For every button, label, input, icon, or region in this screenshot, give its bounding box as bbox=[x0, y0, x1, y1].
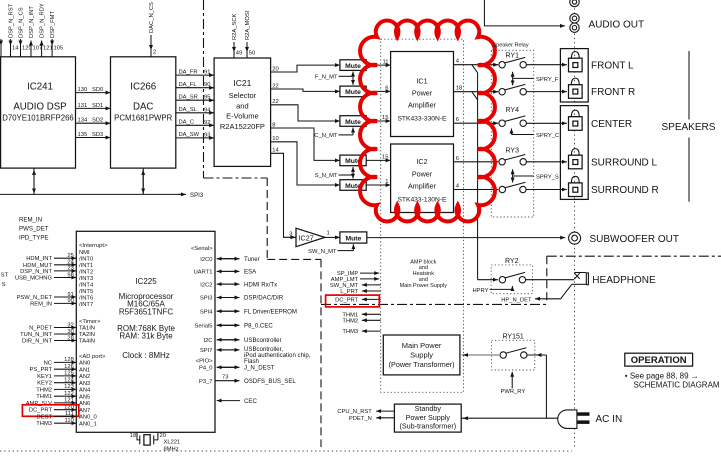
section boundary dashed vertical x547 bbox=[546, 256, 548, 304]
svg-text:14: 14 bbox=[12, 46, 19, 52]
svg-text:SPRY_S: SPRY_S bbox=[536, 175, 559, 181]
wire DSP_N_RDY pin 121 bbox=[40, 3, 53, 57]
red highlight box DC_PRT right bbox=[326, 295, 380, 307]
mute block SW bbox=[340, 232, 367, 243]
mute block C bbox=[340, 116, 366, 127]
svg-text:SPRY_F: SPRY_F bbox=[536, 77, 559, 83]
terminal CENTER bbox=[569, 110, 633, 130]
svg-text:R5F3651TNFC: R5F3651TNFC bbox=[119, 307, 173, 316]
node L_PRT bbox=[340, 289, 380, 295]
svg-text:DA_SL: DA_SL bbox=[179, 107, 198, 113]
svg-text:SURROUND L: SURROUND L bbox=[591, 157, 658, 168]
svg-text:IC21: IC21 bbox=[233, 78, 251, 88]
node S_N_MT mute control bbox=[315, 167, 353, 179]
wire SPI3 to DSP/DAC/DIR bbox=[217, 295, 284, 302]
node THM2 bbox=[342, 318, 380, 324]
node PS_PRT pin 126 bbox=[30, 364, 77, 373]
svg-text:NC: NC bbox=[44, 360, 52, 366]
svg-text:14: 14 bbox=[272, 148, 279, 154]
svg-text:Amplifier: Amplifier bbox=[408, 101, 437, 110]
node DC_PRT bbox=[335, 298, 381, 304]
wire DA_SL pin 94 bbox=[176, 107, 214, 113]
svg-text:AN1: AN1 bbox=[79, 367, 90, 373]
power amplifier IC1 bbox=[391, 52, 454, 137]
svg-text:3: 3 bbox=[289, 231, 292, 237]
svg-text:AN6: AN6 bbox=[79, 401, 90, 407]
svg-text:ST: ST bbox=[1, 273, 9, 279]
svg-text:TA2IN: TA2IN bbox=[79, 332, 95, 338]
svg-text:PWS_DET: PWS_DET bbox=[19, 226, 49, 233]
svg-text:134: 134 bbox=[78, 118, 88, 124]
svg-text:• See page 88, 89 →: • See page 88, 89 → bbox=[625, 371, 699, 380]
svg-text:/INT6: /INT6 bbox=[79, 295, 93, 301]
svg-text:SPRY_C: SPRY_C bbox=[536, 133, 559, 139]
svg-text:SD0: SD0 bbox=[92, 87, 103, 93]
section boundary dashed vertical x267 bbox=[266, 178, 268, 259]
dotted box AMP block / Heatsink / Main Power Supply bbox=[381, 39, 464, 392]
wire SPI4 to FL Driver/EEPROM bbox=[217, 308, 297, 315]
IC266 DAC box bbox=[111, 57, 176, 168]
wire P3_7 pin 73 to OSDFS_BUS_SEL bbox=[215, 375, 296, 385]
svg-text:SCHEMATIC DIAGRAM: SCHEMATIC DIAGRAM bbox=[634, 381, 720, 390]
svg-text:AN7: AN7 bbox=[79, 408, 90, 414]
svg-text:OSDFS_BUS_SEL: OSDFS_BUS_SEL bbox=[244, 378, 296, 385]
svg-text:E-Volume: E-Volume bbox=[226, 112, 259, 121]
wire SD3 pin 135 bbox=[76, 132, 111, 138]
pin group Interrupt labels bbox=[79, 243, 108, 427]
relay RY2 headphone bbox=[491, 258, 532, 293]
relay RY4 contact center bbox=[499, 116, 527, 127]
svg-text:UART1: UART1 bbox=[194, 270, 213, 276]
svg-text:N_PDET: N_PDET bbox=[29, 326, 52, 332]
svg-text:I2C2: I2C2 bbox=[200, 282, 212, 288]
svg-text:PWR_RY: PWR_RY bbox=[501, 389, 526, 395]
svg-text:STK433-330N-E: STK433-330N-E bbox=[397, 116, 447, 123]
wire RY1 to FRONT L terminal bbox=[526, 64, 566, 66]
svg-text:Power Supply: Power Supply bbox=[406, 413, 451, 422]
svg-text:(Sub-transformer): (Sub-transformer) bbox=[399, 422, 456, 431]
svg-text:SW_N_MT: SW_N_MT bbox=[330, 283, 359, 289]
svg-text:RY3: RY3 bbox=[506, 147, 520, 154]
svg-text:50: 50 bbox=[249, 51, 255, 57]
svg-text:121: 121 bbox=[43, 46, 53, 52]
svg-text:IC1: IC1 bbox=[416, 76, 427, 85]
svg-text:131: 131 bbox=[78, 103, 88, 109]
section boundary dash-dot horizontal y178 bbox=[204, 177, 268, 179]
svg-text:/INT4: /INT4 bbox=[79, 282, 94, 288]
svg-text:TA4IN: TA4IN bbox=[79, 339, 95, 345]
wire IC21 pin 8 to Mute S L bbox=[271, 122, 340, 160]
dotted page border bottom bbox=[0, 450, 572, 452]
wire Serial5 to P8_0,CEC bbox=[217, 323, 274, 330]
wire I2C to USBcontroller bbox=[217, 337, 282, 344]
svg-text:C_N_MT: C_N_MT bbox=[314, 133, 338, 139]
svg-text:AN4: AN4 bbox=[79, 388, 91, 394]
svg-text:Mute: Mute bbox=[345, 119, 361, 126]
wire IC21 pin 10 to Mute S R bbox=[271, 136, 340, 185]
svg-text:R2A_MOSI: R2A_MOSI bbox=[245, 10, 251, 40]
node HDM_INT pin 25 bbox=[26, 253, 76, 262]
svg-text:Standby: Standby bbox=[415, 404, 442, 413]
svg-text:2: 2 bbox=[153, 50, 156, 56]
op-amp IC27 bbox=[289, 228, 340, 247]
wire headphone feed to RY2 bbox=[478, 279, 498, 281]
svg-text:DC_PRT: DC_PRT bbox=[335, 298, 359, 304]
wire headphone feed vertical bbox=[477, 73, 479, 280]
svg-text:RY2: RY2 bbox=[505, 258, 519, 265]
svg-text:PS_PRT: PS_PRT bbox=[30, 367, 53, 373]
svg-text:THM2: THM2 bbox=[36, 387, 52, 393]
node SPRY_F relay control bbox=[513, 72, 559, 86]
svg-text:DSP/DAC/DIR: DSP/DAC/DIR bbox=[244, 295, 284, 302]
wire RY1 to FRONT R terminal bbox=[526, 91, 566, 93]
terminal FRONT L bbox=[569, 52, 635, 72]
mute block S R bbox=[340, 180, 366, 191]
svg-text:/INT2: /INT2 bbox=[79, 269, 93, 275]
svg-text:22: 22 bbox=[272, 83, 278, 89]
dotted box Speaker Relay bbox=[491, 50, 533, 217]
node THM3 pin 110 bbox=[36, 418, 76, 427]
svg-text:P3_7: P3_7 bbox=[199, 379, 213, 385]
IC241 AUDIO DSP box bbox=[1, 57, 76, 168]
node KEY2 pin 124 bbox=[37, 378, 76, 387]
svg-text:PCM1681PWPR: PCM1681PWPR bbox=[114, 114, 172, 123]
svg-text:D70YE101BRFP266: D70YE101BRFP266 bbox=[2, 114, 74, 123]
svg-text:TUN_N_INT: TUN_N_INT bbox=[20, 332, 52, 338]
svg-text:SW_N_MT: SW_N_MT bbox=[308, 249, 337, 255]
svg-text:and: and bbox=[419, 265, 428, 271]
red highlight box DC_PRT left bbox=[22, 405, 78, 417]
svg-text:XL221: XL221 bbox=[164, 439, 181, 445]
svg-text:91: 91 bbox=[204, 70, 210, 76]
svg-text:DSP_N_RST: DSP_N_RST bbox=[8, 3, 14, 38]
svg-text:and: and bbox=[236, 101, 249, 110]
svg-text:8: 8 bbox=[272, 122, 275, 128]
node THM3 bbox=[342, 329, 380, 335]
node SPEAKERS bracket bbox=[662, 51, 716, 202]
node HPRY relay control bbox=[472, 286, 512, 294]
svg-text:RY1: RY1 bbox=[506, 53, 520, 60]
wire mute to IC1 pin 6 bbox=[366, 86, 390, 92]
svg-text:DIR_N_INT: DIR_N_INT bbox=[22, 339, 52, 345]
svg-text:6: 6 bbox=[385, 86, 388, 92]
wire tap front L to headphone feed bbox=[472, 65, 478, 73]
svg-text:SD3: SD3 bbox=[92, 132, 103, 138]
svg-text:CEC: CEC bbox=[244, 398, 257, 405]
svg-text:Power: Power bbox=[412, 169, 433, 178]
node PSW_N_DET pin 91 bbox=[17, 292, 77, 301]
wire RY3 to SURROUND R terminal bbox=[526, 189, 567, 191]
wire CEC input bbox=[217, 398, 258, 405]
svg-text:105: 105 bbox=[54, 46, 64, 52]
svg-text:6: 6 bbox=[456, 156, 459, 162]
connector RCA top bbox=[570, 0, 579, 7]
wire DSP_N_CS pin 120 bbox=[18, 7, 31, 57]
svg-text:I2C: I2C bbox=[203, 338, 212, 344]
svg-text:<Interrupt>: <Interrupt> bbox=[79, 243, 108, 249]
svg-text:AN0: AN0 bbox=[79, 361, 90, 367]
svg-text:OPERATION: OPERATION bbox=[631, 355, 687, 366]
node THM1 bbox=[342, 312, 380, 318]
section boundary dash-dot vertical left of IC21 bbox=[203, 0, 205, 178]
relay RY3 contact surround L bbox=[499, 155, 527, 166]
wire R2A_SCK pin 49 bbox=[232, 13, 242, 58]
wire RY3 to SURROUND L terminal bbox=[526, 161, 566, 163]
wire SD1 pin 131 bbox=[76, 103, 111, 109]
wire IC241 to SPI3 bus (bidirectional) bbox=[33, 168, 35, 194]
svg-text:20: 20 bbox=[160, 433, 166, 439]
svg-text:18: 18 bbox=[456, 86, 462, 92]
svg-text:F_N_MT: F_N_MT bbox=[315, 75, 338, 81]
speaker terminal group box front bbox=[560, 49, 588, 102]
wire P4_0 to J_N_DEST bbox=[217, 365, 275, 372]
svg-text:S_N_MT: S_N_MT bbox=[315, 173, 338, 179]
wire AC IN to standby supply bbox=[461, 417, 560, 419]
wire IC21 pin 14 to IC27 bbox=[271, 148, 296, 238]
svg-text:AUDIO OUT: AUDIO OUT bbox=[589, 20, 645, 31]
mute block F L bbox=[340, 60, 366, 71]
svg-text:HDM_INT: HDM_INT bbox=[26, 256, 52, 262]
svg-text:SPI3: SPI3 bbox=[190, 192, 204, 199]
svg-text:IC266: IC266 bbox=[130, 82, 156, 93]
pin group Serial labels right bbox=[191, 246, 213, 385]
svg-text:DAC: DAC bbox=[133, 102, 153, 113]
node AMP_SLV pin 121 bbox=[26, 398, 77, 407]
wire DA_SR pin 95 bbox=[176, 94, 214, 100]
svg-text:THM1: THM1 bbox=[36, 394, 52, 400]
svg-text:KEY1: KEY1 bbox=[37, 374, 52, 380]
svg-text:AN0_1: AN0_1 bbox=[79, 421, 97, 427]
svg-text:RAM: 31k Byte: RAM: 31k Byte bbox=[119, 332, 173, 341]
floating node labels REM_IN PWS_DET IPD_TYPE bbox=[19, 217, 49, 242]
svg-text:DSP_N_INT: DSP_N_INT bbox=[20, 269, 52, 275]
connector RCA audio out upper bbox=[570, 14, 579, 23]
svg-text:8MHz: 8MHz bbox=[164, 446, 179, 452]
speaker terminal group box center surround bbox=[560, 106, 588, 200]
svg-text:CENTER: CENTER bbox=[591, 119, 632, 130]
dotted connector centerline x574.5 bbox=[574, 0, 576, 448]
svg-text:IC225: IC225 bbox=[135, 277, 157, 286]
svg-text:DSP_N_RDY: DSP_N_RDY bbox=[40, 3, 46, 38]
svg-text:92: 92 bbox=[204, 120, 210, 126]
red highlight cloud around amp block bbox=[360, 21, 495, 222]
svg-text:DEST: DEST bbox=[37, 414, 53, 420]
svg-text:RY4: RY4 bbox=[506, 107, 520, 114]
svg-text:DA_FR: DA_FR bbox=[179, 69, 198, 75]
node SW_N_MT mute control bbox=[308, 244, 353, 255]
IC21 Selector and E-Volume box bbox=[214, 58, 271, 166]
svg-text:DA_SR: DA_SR bbox=[179, 94, 198, 100]
svg-text:120: 120 bbox=[22, 46, 32, 52]
svg-text:DA_SW: DA_SW bbox=[179, 132, 200, 138]
svg-text:Main Power: Main Power bbox=[402, 341, 442, 350]
svg-text:95: 95 bbox=[204, 95, 210, 101]
svg-text:SURROUND R: SURROUND R bbox=[591, 185, 659, 196]
node HDM_MUT pin 24 bbox=[23, 260, 76, 269]
node DEST pin 111 bbox=[37, 411, 77, 420]
svg-text:HPRY: HPRY bbox=[472, 288, 488, 294]
node SW_N_MT bbox=[330, 283, 381, 289]
section boundary dash-dot horizontal y256 right bbox=[547, 255, 721, 257]
node THM1 pin 122 bbox=[36, 391, 76, 400]
svg-text:SPI7: SPI7 bbox=[200, 348, 213, 354]
node SPRY_C relay control bbox=[512, 129, 560, 139]
svg-text:AN5: AN5 bbox=[79, 394, 90, 400]
node AMP_LMT bbox=[331, 277, 379, 283]
svg-text:ESA: ESA bbox=[244, 269, 257, 276]
svg-text:SUBWOOFER OUT: SUBWOOFER OUT bbox=[590, 234, 679, 245]
svg-text:TA1IN: TA1IN bbox=[79, 326, 95, 332]
svg-text:Mute: Mute bbox=[345, 63, 361, 70]
node PWR_RY relay control bbox=[501, 372, 526, 395]
svg-text:1: 1 bbox=[385, 179, 388, 185]
svg-text:DA_C: DA_C bbox=[179, 120, 194, 126]
svg-text:Selector: Selector bbox=[229, 91, 257, 100]
svg-text:DC_PRT: DC_PRT bbox=[29, 408, 53, 414]
svg-text:/INT7: /INT7 bbox=[79, 302, 93, 308]
node TUN_N_INT pin 30 bbox=[20, 329, 76, 338]
node CPU_N_RST bbox=[337, 409, 394, 415]
svg-text:<Serial>: <Serial> bbox=[191, 246, 213, 252]
svg-text:SD2: SD2 bbox=[92, 118, 103, 124]
svg-text:FL Driver/EEPROM: FL Driver/EEPROM bbox=[244, 308, 297, 315]
wire HP_N_DET detect switch bbox=[501, 284, 572, 303]
svg-text:94: 94 bbox=[204, 107, 211, 113]
wire RY4 to CENTER terminal bbox=[526, 122, 566, 124]
svg-text:FRONT R: FRONT R bbox=[591, 87, 635, 98]
wire DAC_N_CS pin 2 bbox=[149, 2, 156, 57]
svg-text:NMI: NMI bbox=[79, 250, 90, 256]
section boundary dashed vertical x321 bbox=[320, 259, 322, 447]
node USB_MCHNG pin 98 bbox=[15, 272, 76, 281]
svg-text:AN0_0: AN0_0 bbox=[79, 415, 97, 421]
wire DA_FL pin 90 bbox=[176, 82, 214, 88]
wire IC1 pin 6 out center bbox=[454, 117, 499, 123]
terminal SURROUND R bbox=[569, 176, 659, 196]
wire DSP_N_RST pin 114 bbox=[8, 3, 19, 56]
node REM_IN pin 90 bbox=[30, 298, 76, 307]
wire mute to IC1 pin 15 bbox=[366, 115, 390, 121]
svg-text:REM_IN: REM_IN bbox=[19, 217, 42, 224]
svg-text:DAC_N_CS: DAC_N_CS bbox=[149, 2, 155, 33]
wire tap front R to headphone feed bbox=[472, 92, 478, 100]
node DC_PRT pin 120 bbox=[29, 405, 76, 414]
terminal SURROUND L bbox=[569, 149, 658, 169]
svg-text:IC2: IC2 bbox=[416, 157, 427, 166]
AC IN plug bbox=[558, 410, 622, 429]
wire R2A_MOSI pin 50 bbox=[245, 10, 255, 58]
svg-text:J_N_DEST: J_N_DEST bbox=[244, 365, 275, 372]
wire I2C0 to Tuner bbox=[217, 256, 260, 263]
Standby Power Supply box bbox=[394, 404, 461, 432]
headphone jack bbox=[572, 273, 589, 285]
svg-text:15: 15 bbox=[382, 155, 388, 161]
svg-text:Mute: Mute bbox=[345, 89, 361, 96]
svg-text:CPU_N_RST: CPU_N_RST bbox=[337, 409, 372, 415]
svg-text:USB_MCHNG: USB_MCHNG bbox=[15, 276, 53, 282]
svg-text:DSP_N_INT: DSP_N_INT bbox=[29, 6, 35, 38]
svg-text:R2A15220FP: R2A15220FP bbox=[220, 122, 265, 131]
svg-text:(Power Transformer): (Power Transformer) bbox=[389, 360, 455, 369]
SPI3 bus wire bbox=[0, 192, 204, 199]
wire RY2 to headphone jack bbox=[526, 279, 575, 281]
svg-text:L_PRT: L_PRT bbox=[340, 289, 358, 295]
svg-text:1: 1 bbox=[327, 230, 330, 236]
relay RY1 contact front R bbox=[499, 84, 527, 95]
svg-text:18: 18 bbox=[130, 433, 136, 439]
svg-text:<AD port>: <AD port> bbox=[79, 354, 106, 360]
svg-text:Supply: Supply bbox=[410, 351, 433, 360]
svg-text:AC IN: AC IN bbox=[596, 414, 623, 425]
wire SD2 pin 134 bbox=[76, 118, 111, 124]
wire RY151 to main power supply (grey) bbox=[461, 354, 500, 356]
relay RY1 contact front L bbox=[499, 57, 527, 67]
OPERATION note box bbox=[625, 353, 720, 389]
relay RY3 contact surround R bbox=[499, 182, 526, 193]
wire mute to IC2 pin 15 bbox=[366, 155, 390, 161]
svg-text:90: 90 bbox=[204, 82, 210, 88]
node DIR_N_INT pin 28 bbox=[22, 335, 76, 344]
node THM2 pin 123 bbox=[36, 384, 76, 393]
wire IC21 pin 22 to Mute F R bbox=[271, 83, 340, 91]
svg-text:IPD_TYPE: IPD_TYPE bbox=[19, 235, 48, 242]
node C_N_MT mute control bbox=[314, 128, 353, 140]
svg-text:HDM_MUT: HDM_MUT bbox=[23, 263, 52, 269]
microprocessor IC225 box bbox=[76, 231, 215, 432]
svg-text:135: 135 bbox=[78, 132, 88, 138]
connector RCA audio out lower bbox=[570, 23, 579, 32]
svg-text:REM_IN: REM_IN bbox=[30, 301, 52, 307]
relay RY151 bbox=[492, 333, 535, 370]
wire mute to IC1 pin 11 bbox=[366, 59, 390, 65]
svg-text:130: 130 bbox=[78, 87, 88, 93]
svg-text:DSP_FMT: DSP_FMT bbox=[50, 10, 56, 38]
svg-text:FRONT L: FRONT L bbox=[591, 60, 634, 71]
connector RCA subwoofer out bbox=[569, 232, 581, 244]
svg-text:Mute: Mute bbox=[345, 235, 361, 242]
svg-text:Main Power Supply: Main Power Supply bbox=[400, 283, 448, 289]
svg-text:10: 10 bbox=[272, 136, 278, 142]
section boundary dashed horizontal y259 bbox=[267, 258, 321, 260]
svg-text:P4_0: P4_0 bbox=[199, 366, 213, 372]
node F_N_MT mute control bbox=[315, 72, 353, 85]
svg-text:Serial5: Serial5 bbox=[194, 324, 212, 330]
svg-text:107: 107 bbox=[33, 46, 43, 52]
node PDET_N bbox=[349, 416, 394, 422]
svg-text:22: 22 bbox=[272, 99, 278, 105]
svg-text:HDMI Rx/Tx: HDMI Rx/Tx bbox=[244, 281, 277, 288]
svg-text:Power: Power bbox=[412, 89, 433, 98]
wire DA_FR pin 91 bbox=[176, 69, 214, 75]
power amplifier IC2 bbox=[391, 144, 454, 213]
node NC pin 128 bbox=[44, 357, 77, 366]
svg-text:/INT0: /INT0 bbox=[79, 256, 93, 262]
svg-text:Amplifier: Amplifier bbox=[408, 181, 437, 190]
node N_PDET pin 32 bbox=[29, 322, 76, 331]
svg-text:DA_FL: DA_FL bbox=[179, 82, 198, 88]
svg-text:I2C0: I2C0 bbox=[200, 257, 212, 263]
wire IC21 pin 20 to Mute F L bbox=[271, 65, 340, 72]
wire I2C2 to HDMI Rx/Tx bbox=[217, 281, 277, 288]
svg-text:Clock : 8MHz: Clock : 8MHz bbox=[122, 351, 170, 360]
svg-text:15: 15 bbox=[382, 115, 388, 121]
svg-text:AN3: AN3 bbox=[79, 381, 90, 387]
Main Power Supply box bbox=[383, 335, 460, 375]
svg-text:THM2: THM2 bbox=[342, 318, 358, 324]
svg-text:/INT3: /INT3 bbox=[79, 276, 93, 282]
svg-text:/INT5: /INT5 bbox=[79, 289, 93, 295]
svg-text:PDET_N: PDET_N bbox=[349, 416, 372, 422]
